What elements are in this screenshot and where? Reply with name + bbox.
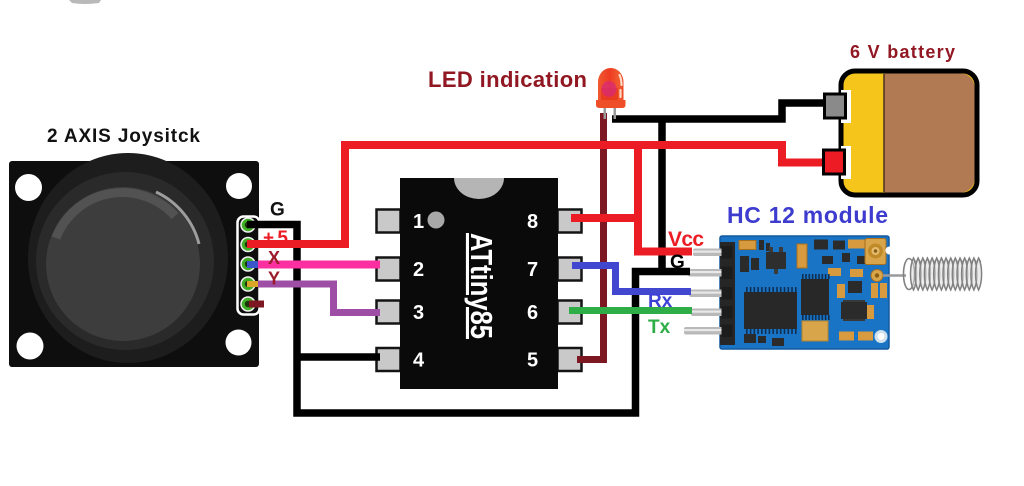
svg-text:G: G [670, 252, 685, 273]
wire Tx: ATtiny pin 6 to HC-12 Tx (green) [569, 307, 692, 314]
ATtiny85 notch [454, 178, 504, 199]
LED D1 legs [604, 106, 607, 119]
svg-text:3: 3 [413, 302, 424, 324]
HC-12 bottom smd parts [744, 334, 756, 343]
HC-12 edge notch [886, 247, 894, 255]
svg-text:HC 12 module: HC 12 module [727, 202, 888, 228]
HC-12 mid gold resistors [828, 268, 841, 276]
HC-12 MCU U4 [802, 274, 804, 279]
svg-text:6: 6 [527, 302, 538, 324]
HC-12 crystal Y1 [797, 244, 807, 268]
joystick knob outer highlight arc [156, 192, 199, 244]
antenna ANT1 coil [883, 258, 982, 290]
wire X axis: joystick X to ATtiny pin 2 (magenta) [258, 261, 380, 269]
cropped image artifact top-left [69, 0, 101, 4]
joystick knob outer ring [28, 153, 228, 363]
wire ground stub to ATtiny pin 4 [296, 353, 380, 361]
svg-text:2: 2 [413, 259, 424, 281]
wire ground vertical junction to HC-12 G [658, 119, 666, 272]
joystick header pin 5 [241, 297, 255, 311]
wire Rx: ATtiny pin 7 to HC-12 Rx (blue) [572, 266, 691, 292]
joystick knob middle ring [36, 172, 214, 350]
joystick header pin 4 [241, 277, 255, 291]
svg-text:Y: Y [268, 269, 280, 289]
LED D1 highlight [620, 75, 622, 85]
joystick header pin 1 [241, 218, 255, 232]
HC-12 pin 4 [691, 309, 731, 317]
battery brown section [884, 74, 975, 193]
battery negative terminal base [841, 90, 851, 123]
joystick knob face highlight arc [56, 193, 175, 238]
HC-12 8-pin IC U5 [843, 300, 865, 305]
battery BT1 body [841, 71, 977, 195]
battery negative terminal [825, 94, 846, 118]
svg-text:4: 4 [413, 350, 425, 372]
HC-12 small ic right mid [848, 281, 862, 293]
wire X axis blue stub at joystick pin [247, 261, 263, 268]
joystick mounting hole top-right [226, 173, 252, 199]
svg-text:2 AXIS Joysitck: 2 AXIS Joysitck [47, 126, 200, 147]
joystick header pin 3 [241, 257, 255, 271]
HC-12 gold pad top-left [739, 241, 756, 250]
svg-text:LED indication: LED indication [428, 67, 587, 92]
wire Y axis: joystick Y to ATtiny pin 3 (purple) [258, 284, 380, 313]
HC-12 smd resistor left [740, 256, 749, 272]
wire LED anode to ATtiny pin 5 (dark red) [577, 113, 604, 360]
joystick knob face [46, 187, 200, 341]
joystick mounting hole bottom-right [226, 330, 252, 356]
svg-text:G: G [270, 200, 285, 221]
ATtiny85 U1 left pin 2 [377, 258, 401, 281]
svg-text:Rx: Rx [648, 291, 673, 312]
HC-12 right resistors [871, 283, 878, 298]
HC-12 pin 1 [693, 249, 731, 257]
HC-12 pin 2 [688, 269, 731, 277]
wire Y axis yellow stub at joystick pin [247, 281, 261, 287]
joystick mounting hole top-left [15, 174, 42, 201]
joystick header pin 2 [241, 238, 255, 252]
svg-text:6 V battery: 6 V battery [850, 42, 955, 62]
wire +5V branch: top rail to ATtiny pin 8 junction and HC-12 Vcc (red) [638, 145, 692, 252]
HC-12 pin header block [720, 242, 735, 345]
ATtiny85 U1 left pin 1 [377, 210, 401, 233]
HC-12 mounting hole [875, 330, 888, 343]
LED D1 flange [596, 100, 626, 108]
LED D1 magenta glow [602, 81, 617, 97]
joystick module JOY1 body [9, 161, 259, 367]
HC-12 antenna feed pad [871, 270, 883, 282]
ATtiny85 U1 left pin 3 [377, 301, 401, 324]
svg-text:7: 7 [527, 259, 538, 281]
wire +5V net: joystick +5 to top rail to battery positive (red) [247, 145, 822, 244]
HC-12 small cap [759, 240, 764, 250]
svg-text:Vcc: Vcc [668, 228, 704, 251]
battery positive terminal [824, 150, 845, 174]
HC-12 pin 3 [689, 290, 731, 298]
svg-text:5: 5 [527, 350, 538, 372]
joystick mounting hole bottom-left [17, 333, 44, 360]
wire ground net: joystick G - ATtiny pin4 - HC-12 GND loop [247, 225, 690, 414]
LED D1 inner square [601, 88, 618, 104]
ATtiny85 U1 left pin 4 [377, 348, 401, 371]
ATtiny85 U1 body [400, 178, 558, 389]
joystick pin header P1 [238, 217, 260, 315]
HC-12 module U2 PCB [720, 236, 889, 349]
HC-12 transistor Q1 [766, 252, 786, 269]
svg-text:1: 1 [413, 211, 424, 233]
ATtiny85 U1 right pin 6 [558, 301, 582, 324]
svg-text:8: 8 [527, 211, 538, 233]
ATtiny85 U1 right pin 7 [558, 258, 582, 281]
HC-12 big IC U3 [746, 287, 748, 292]
HC-12 RF connector J1 [865, 239, 886, 265]
wire joystick 5th pin stub (dark red) [249, 301, 264, 308]
ATtiny85 U1 right pin 5 [558, 348, 582, 371]
svg-text:ATtiny85: ATtiny85 [464, 233, 499, 339]
svg-text:X: X [268, 248, 280, 268]
wire ground: LED cathode to battery negative [612, 103, 826, 119]
svg-text:Tx: Tx [648, 317, 671, 338]
ATtiny85 pin-1 dot [428, 212, 445, 229]
wire +5V stub to ATtiny pin 8 (red) [571, 214, 642, 222]
HC-12 gold module pad [802, 321, 828, 341]
HC-12 top smd caps [814, 240, 828, 250]
HC-12 pin 5 [684, 327, 731, 335]
ATtiny85 U1 right pin 8 [558, 210, 582, 233]
battery positive terminal base [841, 146, 851, 179]
